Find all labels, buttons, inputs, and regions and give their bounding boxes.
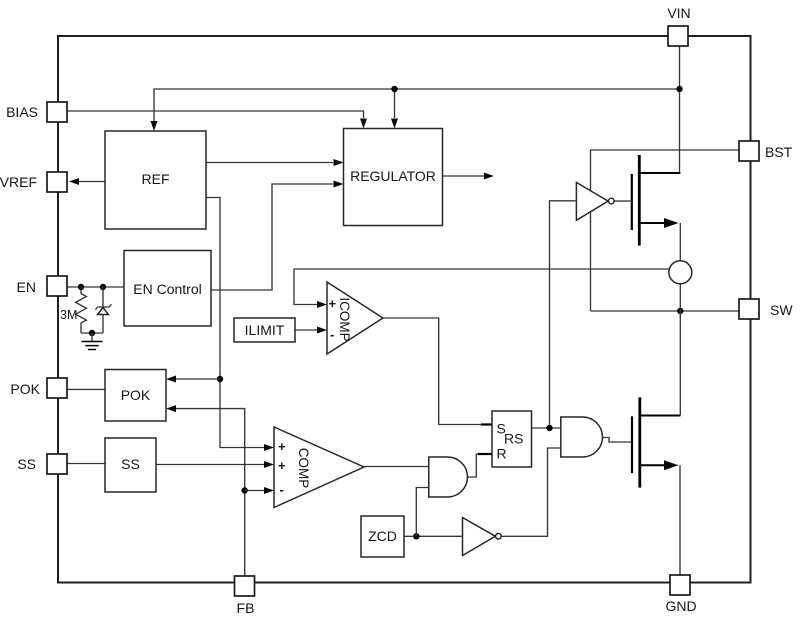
AND gate G1 xyxy=(429,457,468,497)
node junction ZCD branch xyxy=(413,533,419,539)
op-amp ICOMP xyxy=(327,282,383,354)
svg-text:VREF: VREF xyxy=(0,174,37,190)
svg-text:3M: 3M xyxy=(60,308,77,322)
wire current sense to ICOMP plus xyxy=(294,269,669,305)
svg-text:EN Control: EN Control xyxy=(133,281,201,297)
latch RS xyxy=(492,411,532,467)
arrow into ICOMP plus xyxy=(317,301,327,308)
arrow REGULATOR output xyxy=(484,173,494,180)
arrow into COMP minus xyxy=(264,487,274,494)
wire REF output to REGULATOR xyxy=(206,162,333,164)
block REF xyxy=(105,131,206,229)
svg-text:VIN: VIN xyxy=(667,5,690,21)
pin POK xyxy=(10,378,67,398)
wire AND gate output to RS R input xyxy=(468,454,493,477)
svg-text:EN: EN xyxy=(17,279,36,295)
svg-text:BIAS: BIAS xyxy=(6,104,38,120)
svg-text:ICOMP: ICOMP xyxy=(337,297,352,341)
wire internal VDD rail y=89 to REF and REGULATOR xyxy=(154,89,680,121)
wire RS Q output to OR gate and driver U2 xyxy=(532,201,576,428)
arrow into COMP plus2 xyxy=(264,461,274,468)
arrow into ICOMP minus xyxy=(317,327,327,334)
svg-text:POK: POK xyxy=(10,381,40,397)
node junction VIN rail xyxy=(676,86,682,92)
inverter U3 xyxy=(463,518,502,556)
wire BST rail xyxy=(591,150,740,311)
block ZCD xyxy=(361,516,404,557)
pin VREF xyxy=(0,172,67,192)
arrow into REF top xyxy=(151,121,158,131)
wire REF to VREF pin xyxy=(78,181,105,183)
pin GND xyxy=(665,575,696,614)
node junction RS Q xyxy=(546,425,552,431)
arrow into COMP plus1 xyxy=(264,444,274,451)
wire EN pin to EN Control xyxy=(67,286,124,288)
svg-text:+: + xyxy=(278,458,286,473)
pin EN xyxy=(17,276,67,296)
block SS xyxy=(105,438,156,492)
svg-text:RS: RS xyxy=(504,431,523,447)
pin FB xyxy=(235,576,255,616)
svg-text:REGULATOR: REGULATOR xyxy=(350,168,436,184)
wire FB branch to COMP minus xyxy=(245,490,264,492)
wire SS pin to SS block xyxy=(67,463,105,465)
chip border xyxy=(58,36,751,583)
svg-text:FB: FB xyxy=(237,600,255,616)
wire OR gate output to low-side gate xyxy=(603,438,632,443)
wire ZCD output xyxy=(404,535,462,537)
wire REF bottom output down to POK and COMP xyxy=(206,198,264,448)
block REGULATOR xyxy=(344,129,443,226)
svg-text:SS: SS xyxy=(121,456,140,472)
arrow REF into REGULATOR left xyxy=(334,159,344,166)
pin BST xyxy=(739,141,793,161)
block POK xyxy=(105,370,166,422)
pin VIN xyxy=(667,5,690,46)
svg-text:-: - xyxy=(330,327,334,342)
inverter driver U2 xyxy=(576,182,614,220)
svg-text:ILIMIT: ILIMIT xyxy=(245,322,285,338)
pin SW xyxy=(739,299,793,319)
wire FB riser to POK input 2 and COMP minus xyxy=(176,409,245,576)
svg-text:REF: REF xyxy=(142,171,170,187)
svg-text:R: R xyxy=(497,446,507,462)
wire COMP output to AND gate xyxy=(364,466,428,468)
svg-text:COMP: COMP xyxy=(296,448,311,489)
svg-text:SS: SS xyxy=(17,456,36,472)
wire SS output to COMP plus2 xyxy=(156,464,264,466)
arrow into POK input 1 xyxy=(166,376,176,383)
wire ICOMP output to RS S input xyxy=(383,318,492,425)
node junction on VDD rail xyxy=(391,86,397,92)
transistor Q2 low-side NMOS xyxy=(632,311,680,575)
svg-text:ZCD: ZCD xyxy=(368,528,397,544)
svg-text:+: + xyxy=(278,439,286,454)
pin SS xyxy=(17,454,67,474)
block EN Control xyxy=(124,251,211,327)
node junction EN resistor xyxy=(78,284,84,290)
svg-text:GND: GND xyxy=(665,598,696,614)
arrow VDD into REGULATOR top xyxy=(391,119,398,129)
wire ILIMIT to ICOMP minus xyxy=(295,329,317,331)
arrow into POK input 2 xyxy=(166,405,176,412)
svg-text:SW: SW xyxy=(770,302,793,318)
wire VIN vertical rail xyxy=(679,46,681,173)
arrow into VREF pin xyxy=(69,178,79,185)
OR gate G2 xyxy=(561,417,603,457)
arrow BIAS into REGULATOR top xyxy=(360,119,367,129)
label 3M xyxy=(60,308,77,322)
wire BIAS to REGULATOR xyxy=(67,111,364,118)
svg-text:BST: BST xyxy=(765,144,793,160)
zener diode D1 xyxy=(95,287,111,333)
wire driver U2 output to high-side gate xyxy=(614,200,631,202)
node junction ground tie xyxy=(89,330,95,336)
wire ZCD branch to AND gate input 2 xyxy=(416,488,428,537)
node junction EN zener xyxy=(100,284,106,290)
wire EN Control output to REGULATOR xyxy=(211,184,333,290)
op-amp COMP xyxy=(274,427,364,508)
svg-text:+: + xyxy=(329,296,337,311)
node junction FB to COMP minus xyxy=(242,487,248,493)
svg-text:POK: POK xyxy=(121,387,151,403)
ground xyxy=(82,333,103,350)
wire inverter U3 output to OR gate input 2 xyxy=(501,448,560,536)
current source I1 xyxy=(669,261,692,311)
node junction POK branch xyxy=(217,376,223,382)
arrow EN Control into REGULATOR left xyxy=(334,181,344,188)
transistor Q1 high-side NMOS xyxy=(632,155,681,261)
wire SW rail xyxy=(591,310,740,312)
pin BIAS xyxy=(6,102,67,122)
wire REGULATOR output xyxy=(443,175,485,177)
block ILIMIT xyxy=(234,318,295,342)
wire branch to POK input 1 xyxy=(176,378,220,380)
resistor 3M xyxy=(76,287,87,333)
wire POK pin to POK block xyxy=(67,388,105,390)
wire resistor-diode bottom tie xyxy=(81,332,103,334)
svg-text:-: - xyxy=(280,482,284,497)
node junction SW xyxy=(677,308,683,314)
